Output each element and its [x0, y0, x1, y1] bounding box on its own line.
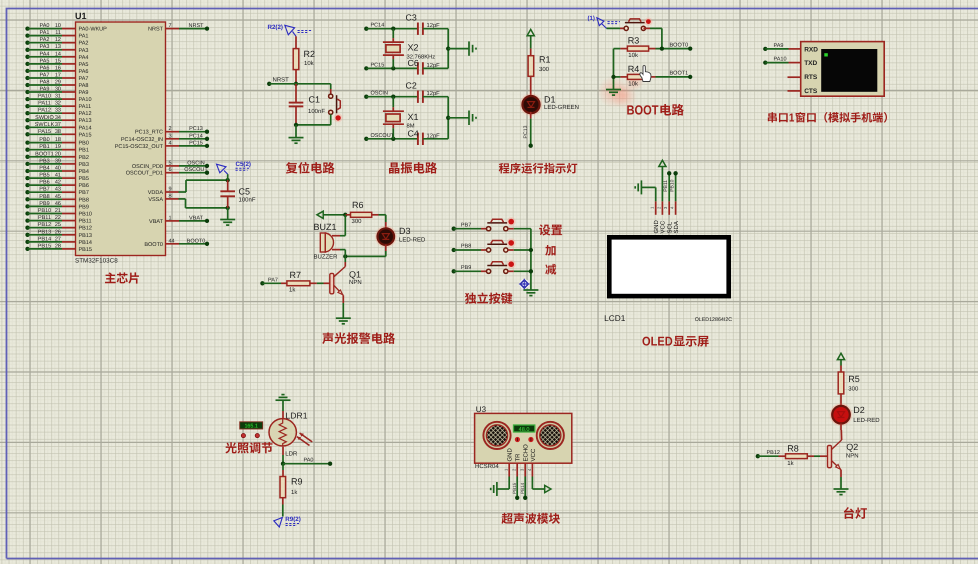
svg-text:PB15: PB15 — [79, 247, 92, 253]
svg-text:PA11: PA11 — [38, 101, 51, 107]
svg-text:R7: R7 — [290, 270, 302, 280]
svg-text:LED-GREEN: LED-GREEN — [544, 104, 579, 111]
svg-text:NRST: NRST — [189, 23, 205, 29]
svg-text:45: 45 — [55, 194, 61, 200]
svg-text:STM32F103C8: STM32F103C8 — [75, 258, 118, 265]
svg-text:C5: C5 — [239, 187, 251, 197]
svg-text:PB4: PB4 — [79, 169, 89, 175]
svg-text:ECHO: ECHO — [523, 444, 530, 462]
svg-text:VDDA: VDDA — [148, 190, 164, 196]
svg-text:PA4: PA4 — [40, 51, 50, 57]
svg-text:SDA: SDA — [673, 221, 680, 233]
svg-text:PB8: PB8 — [461, 244, 471, 250]
svg-text:R8: R8 — [787, 443, 799, 453]
svg-text:PB11: PB11 — [79, 219, 92, 225]
svg-text:PC15-OSC32_OUT: PC15-OSC32_OUT — [115, 144, 164, 150]
svg-text:PB5: PB5 — [79, 176, 89, 182]
svg-text:300: 300 — [539, 66, 550, 73]
svg-text:PB5: PB5 — [39, 173, 49, 179]
svg-text:SWDIO: SWDIO — [35, 115, 54, 121]
svg-text:LDR: LDR — [285, 450, 298, 457]
svg-text:PA7: PA7 — [40, 73, 50, 79]
svg-text:PA2: PA2 — [40, 37, 50, 43]
svg-text:PB10: PB10 — [670, 179, 676, 191]
svg-text:PA9: PA9 — [79, 90, 89, 96]
svg-text:42: 42 — [55, 180, 61, 186]
svg-text:BOOT: BOOT — [627, 103, 659, 118]
svg-text:BOOT1: BOOT1 — [35, 151, 54, 157]
svg-text:RXD: RXD — [804, 47, 818, 54]
svg-text:19: 19 — [55, 144, 61, 150]
svg-text:PB9: PB9 — [79, 204, 89, 210]
svg-text:PA8: PA8 — [40, 80, 50, 86]
svg-text:100nF: 100nF — [308, 108, 325, 115]
svg-text:1k: 1k — [787, 460, 794, 467]
svg-text:PC13_RTC: PC13_RTC — [135, 130, 163, 136]
svg-text:C1: C1 — [309, 95, 321, 105]
svg-text:22: 22 — [55, 215, 61, 221]
svg-text:7: 7 — [169, 23, 172, 29]
svg-text:BOOT0: BOOT0 — [187, 238, 206, 244]
svg-text:10k: 10k — [628, 80, 639, 87]
svg-text:PA10: PA10 — [774, 57, 787, 63]
svg-text:X1: X1 — [408, 112, 419, 122]
svg-text:PB13: PB13 — [38, 229, 51, 235]
svg-text:R3: R3 — [628, 35, 640, 45]
svg-text:PA10: PA10 — [38, 94, 51, 100]
svg-text:PC15: PC15 — [371, 62, 385, 68]
svg-text:PA10: PA10 — [79, 97, 92, 103]
svg-text:13: 13 — [55, 44, 61, 50]
svg-text:PA14: PA14 — [79, 125, 92, 131]
svg-text:PB15: PB15 — [38, 243, 51, 249]
svg-text:PA4: PA4 — [79, 55, 89, 61]
svg-text:CTS: CTS — [804, 88, 818, 95]
svg-text:D3: D3 — [399, 226, 411, 236]
svg-text:Q1: Q1 — [349, 270, 361, 280]
svg-text:PA6: PA6 — [40, 65, 50, 71]
svg-text:PB8: PB8 — [79, 197, 89, 203]
svg-text:10k: 10k — [304, 60, 315, 67]
svg-text:PA15: PA15 — [79, 132, 92, 138]
svg-text:BUZ1: BUZ1 — [314, 222, 337, 232]
svg-text:PB3: PB3 — [79, 162, 89, 168]
svg-text:18: 18 — [55, 137, 61, 143]
svg-text:16: 16 — [55, 65, 61, 71]
svg-text:12: 12 — [55, 37, 61, 43]
svg-text:SWCLK: SWCLK — [35, 122, 55, 128]
svg-text:PB11: PB11 — [663, 180, 669, 192]
svg-text:R4: R4 — [628, 64, 640, 74]
svg-text:PA3: PA3 — [79, 48, 89, 54]
svg-text:PA9: PA9 — [40, 87, 50, 93]
svg-text:3: 3 — [169, 133, 172, 139]
svg-text:PC13: PC13 — [189, 126, 203, 132]
svg-text:PA9: PA9 — [774, 43, 784, 49]
svg-text:PA0-WKUP: PA0-WKUP — [79, 27, 108, 33]
svg-text:OSCOUT: OSCOUT — [371, 133, 395, 139]
svg-text:PA5: PA5 — [79, 62, 89, 68]
svg-text:15: 15 — [55, 58, 61, 64]
svg-text:PA7: PA7 — [79, 76, 89, 82]
svg-text:PC14: PC14 — [371, 23, 385, 29]
svg-text:LED-RED: LED-RED — [399, 236, 426, 243]
svg-text:100nF: 100nF — [239, 196, 256, 203]
svg-text:NRST: NRST — [273, 76, 290, 83]
svg-text:PB3: PB3 — [39, 158, 49, 164]
svg-text:165.1: 165.1 — [244, 424, 258, 430]
svg-text:1k: 1k — [291, 489, 298, 496]
svg-text:PA1: PA1 — [40, 30, 50, 36]
svg-text:PB7: PB7 — [39, 187, 49, 193]
svg-text:46: 46 — [55, 201, 61, 207]
svg-text:OLED: OLED — [642, 335, 673, 349]
svg-text:34: 34 — [55, 115, 61, 121]
svg-text:33: 33 — [55, 108, 61, 114]
svg-text:BUZZER: BUZZER — [314, 254, 339, 261]
svg-text:C3: C3 — [406, 13, 417, 23]
svg-text:12pF: 12pF — [427, 62, 441, 69]
svg-text:Q2: Q2 — [846, 442, 858, 452]
svg-text:39: 39 — [55, 158, 61, 164]
svg-text:OSCOUT: OSCOUT — [184, 167, 208, 173]
svg-text:R2: R2 — [304, 49, 316, 59]
svg-text:LCD1: LCD1 — [604, 313, 626, 323]
svg-text:40: 40 — [55, 166, 61, 172]
svg-text:VCC: VCC — [660, 220, 667, 233]
svg-text:PB2: PB2 — [79, 155, 89, 161]
svg-text:10k: 10k — [628, 52, 639, 59]
svg-text:BOOT1: BOOT1 — [670, 71, 689, 77]
svg-text:PB10: PB10 — [79, 212, 92, 218]
svg-text:41: 41 — [55, 173, 61, 179]
svg-text:(1): (1) — [588, 15, 595, 22]
svg-text:R5: R5 — [848, 374, 860, 384]
svg-text:PA12: PA12 — [79, 111, 92, 117]
svg-text:U1: U1 — [75, 11, 87, 21]
svg-text:PB14: PB14 — [520, 482, 525, 494]
svg-text:PA1: PA1 — [79, 34, 89, 40]
svg-text:PB6: PB6 — [39, 180, 49, 186]
svg-text:PC15: PC15 — [189, 140, 203, 146]
svg-text:PB14: PB14 — [79, 240, 92, 246]
svg-text:300: 300 — [848, 386, 859, 393]
svg-text:LED-RED: LED-RED — [853, 417, 880, 424]
svg-text:PB12: PB12 — [79, 226, 92, 232]
svg-text:NRST: NRST — [148, 27, 164, 33]
svg-text:PB1: PB1 — [39, 144, 49, 150]
svg-text:PB15: PB15 — [512, 482, 517, 494]
svg-text:NPN: NPN — [349, 279, 362, 286]
svg-text:D1: D1 — [544, 95, 556, 105]
svg-text:LDR1: LDR1 — [286, 410, 308, 420]
svg-text:PC14: PC14 — [189, 133, 203, 139]
svg-text:1k: 1k — [289, 287, 296, 294]
svg-text:48.0: 48.0 — [519, 427, 530, 433]
svg-text:12pF: 12pF — [427, 132, 441, 139]
svg-text:PB4: PB4 — [39, 166, 49, 172]
svg-text:1: 1 — [169, 215, 172, 221]
svg-text:C5(2): C5(2) — [236, 161, 251, 168]
svg-text:9: 9 — [169, 187, 172, 193]
svg-text:OSCIN: OSCIN — [187, 160, 204, 166]
svg-text:8: 8 — [169, 193, 172, 199]
svg-text:10: 10 — [55, 23, 61, 29]
svg-text:12pF: 12pF — [427, 90, 441, 97]
svg-text:C2: C2 — [406, 81, 417, 91]
svg-text:32: 32 — [55, 101, 61, 107]
svg-text:X2: X2 — [408, 43, 419, 53]
svg-text:HCSR04: HCSR04 — [475, 463, 499, 470]
svg-text:BOOT0: BOOT0 — [144, 242, 163, 248]
svg-text:27: 27 — [55, 236, 61, 242]
svg-text:PA5: PA5 — [40, 58, 50, 64]
svg-text:PB6: PB6 — [79, 183, 89, 189]
svg-text:TR: TR — [515, 453, 522, 462]
svg-text:C4: C4 — [408, 128, 419, 138]
svg-text:OSCIN_PD0: OSCIN_PD0 — [132, 164, 163, 170]
svg-text:OLED12864I2C: OLED12864I2C — [695, 317, 733, 323]
svg-text:OSCIN: OSCIN — [371, 91, 388, 97]
svg-text:PB13: PB13 — [79, 233, 92, 239]
svg-text:PA7: PA7 — [268, 277, 278, 283]
svg-text:VCC: VCC — [530, 448, 537, 461]
svg-text:VBAT: VBAT — [189, 215, 204, 221]
svg-text:21: 21 — [55, 208, 61, 214]
svg-text:43: 43 — [55, 187, 61, 193]
svg-text:PB8: PB8 — [39, 194, 49, 200]
svg-text:PB10: PB10 — [38, 208, 51, 214]
svg-text:11: 11 — [55, 30, 61, 36]
svg-text:38: 38 — [55, 129, 61, 135]
svg-text:PB12: PB12 — [767, 450, 780, 456]
svg-text:44: 44 — [169, 238, 175, 244]
svg-text:R6: R6 — [352, 200, 364, 210]
svg-text:4: 4 — [169, 140, 172, 146]
svg-text:C6: C6 — [408, 58, 419, 68]
svg-text:RTS: RTS — [804, 74, 818, 81]
svg-text:PB0: PB0 — [39, 137, 49, 143]
svg-text:VSSA: VSSA — [148, 197, 163, 203]
svg-text:26: 26 — [55, 229, 61, 235]
svg-text:29: 29 — [55, 80, 61, 86]
svg-text:PB9: PB9 — [39, 201, 49, 207]
svg-text:2: 2 — [169, 126, 172, 132]
svg-text:R2(2): R2(2) — [268, 24, 283, 31]
svg-text:PA13: PA13 — [79, 118, 92, 124]
svg-text:PB7: PB7 — [461, 222, 471, 228]
svg-text:TXD: TXD — [804, 60, 817, 67]
svg-text:R9: R9 — [291, 477, 303, 487]
svg-text:PB11: PB11 — [38, 215, 51, 221]
svg-text:PA0: PA0 — [304, 457, 314, 463]
svg-text:D2: D2 — [853, 405, 865, 415]
svg-text:PB12: PB12 — [38, 222, 51, 228]
svg-text:17: 17 — [55, 73, 61, 79]
svg-text:PA6: PA6 — [79, 69, 89, 75]
svg-text:300: 300 — [352, 218, 363, 225]
svg-text:5: 5 — [169, 160, 172, 166]
svg-text:25: 25 — [55, 222, 61, 228]
svg-text:PA11: PA11 — [79, 104, 92, 110]
svg-text:PA12: PA12 — [38, 108, 51, 114]
svg-text:PB14: PB14 — [38, 236, 51, 242]
svg-text:PA15: PA15 — [38, 129, 51, 135]
svg-text:14: 14 — [55, 51, 61, 57]
svg-text:1: 1 — [789, 112, 795, 125]
svg-text:PC13: PC13 — [523, 125, 529, 138]
svg-text:PA3: PA3 — [40, 44, 50, 50]
svg-text:PA2: PA2 — [79, 41, 89, 47]
svg-text:20: 20 — [55, 151, 61, 157]
svg-text:PB7: PB7 — [79, 190, 89, 196]
svg-text:PA8: PA8 — [79, 83, 89, 89]
svg-text:R9(2): R9(2) — [285, 516, 300, 523]
svg-text:31: 31 — [55, 94, 61, 100]
svg-text:PB1: PB1 — [79, 148, 89, 154]
svg-text:R1: R1 — [539, 55, 551, 65]
svg-text:12pF: 12pF — [427, 22, 441, 29]
svg-text:NPN: NPN — [846, 452, 859, 459]
svg-text:PB9: PB9 — [461, 265, 471, 271]
svg-text:VBAT: VBAT — [149, 219, 164, 225]
svg-text:SCL: SCL — [667, 221, 674, 233]
svg-text:37: 37 — [55, 122, 61, 128]
svg-text:GND: GND — [653, 220, 660, 234]
svg-text:BOOT0: BOOT0 — [670, 42, 689, 48]
svg-text:28: 28 — [55, 243, 61, 249]
svg-text:30: 30 — [55, 87, 61, 93]
svg-text:GND: GND — [507, 448, 514, 462]
svg-text:PB0: PB0 — [79, 141, 89, 147]
svg-text:6: 6 — [169, 167, 172, 173]
svg-text:OSCOUT_PD1: OSCOUT_PD1 — [126, 171, 163, 177]
svg-text:PA0: PA0 — [40, 23, 50, 29]
svg-text:PC14-OSC32_IN: PC14-OSC32_IN — [121, 137, 163, 143]
